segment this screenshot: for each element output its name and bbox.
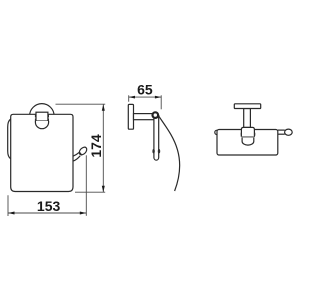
svg-text:174: 174 bbox=[88, 134, 104, 158]
svg-text:65: 65 bbox=[137, 81, 153, 97]
svg-text:153: 153 bbox=[37, 198, 61, 214]
